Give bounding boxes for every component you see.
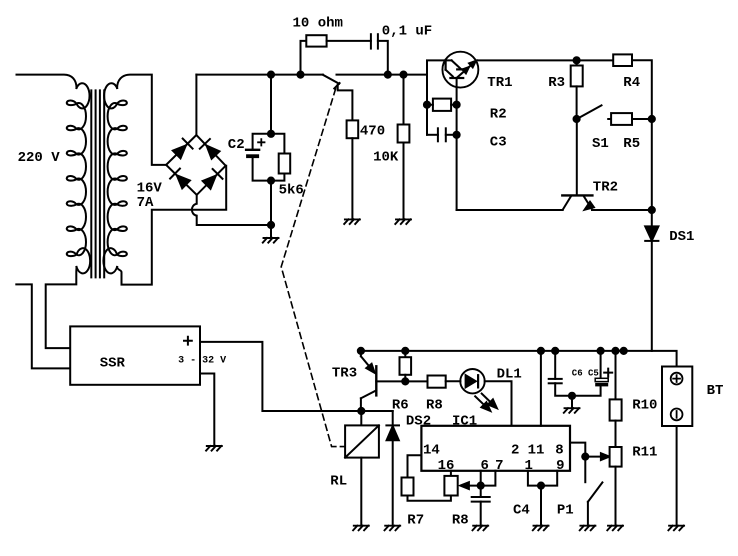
resistor R7 — [402, 478, 414, 496]
node dot C4 node — [478, 483, 484, 489]
ground (DS2) — [385, 526, 401, 531]
wire 470 to ground — [351, 138, 353, 219]
node dot 0,1uF branch — [385, 72, 391, 78]
wire R6 bottom — [404, 375, 406, 382]
resistor R6 — [400, 357, 412, 375]
node dot R3 top — [574, 57, 580, 63]
wire DC+ rail to switch — [196, 74, 323, 76]
ground (SSR-) — [206, 446, 222, 451]
bridge diode D4 (DC- to AC2) — [203, 169, 223, 189]
capacitor C2 (electrolytic) — [246, 150, 259, 158]
wire R3 top lead — [576, 60, 578, 65]
ground (470) — [344, 219, 360, 224]
wire DC+ rail right of switch — [337, 74, 428, 76]
svg-text:14: 14 — [423, 442, 440, 458]
transistor TR3 — [361, 351, 376, 411]
wire C2 node to ground node — [270, 181, 272, 225]
wire C3 left lead — [427, 134, 438, 136]
svg-text:IC1: IC1 — [452, 414, 477, 430]
wire switch pole to 470 resistor — [338, 85, 353, 121]
wire relay node to RL coil — [360, 411, 362, 425]
node dot C3 right — [454, 132, 460, 138]
svg-text:R8: R8 — [452, 513, 469, 529]
diode DS1 — [645, 226, 658, 241]
wire C5 bottom — [572, 386, 601, 395]
IC1 box — [421, 426, 570, 471]
wire BT to ground — [676, 426, 678, 526]
wire C4 to ground — [480, 502, 482, 526]
node dot R2 left — [424, 102, 430, 108]
wire R2 leads — [427, 104, 457, 106]
svg-text:C3: C3 — [490, 135, 507, 151]
wire primary bottom lead to SSR contact — [46, 267, 77, 348]
switch blade (charge changeover) — [323, 75, 340, 89]
svg-text:TR2: TR2 — [593, 180, 618, 196]
wire riser to 10 ohm resistor — [301, 41, 307, 75]
wire R5 left lead — [608, 118, 611, 120]
svg-text:11: 11 — [528, 442, 545, 458]
resistor R2 — [433, 99, 451, 111]
ground (10K) — [395, 219, 411, 224]
switch P1 blade — [588, 482, 603, 501]
dashed link switch to relay RL — [281, 89, 345, 447]
svg-text:RL: RL — [330, 474, 347, 490]
label + (SSR) — [184, 337, 192, 345]
wire R5 node to DS1 — [651, 119, 653, 226]
wire bus to C5 — [600, 351, 602, 378]
ground (C6/C5) — [564, 408, 580, 413]
resistor R4 — [613, 54, 632, 66]
svg-text:0,1 uF: 0,1 uF — [382, 23, 432, 39]
svg-text:R2: R2 — [490, 107, 507, 123]
svg-text:C4: C4 — [513, 503, 530, 519]
svg-text:R5: R5 — [623, 136, 640, 152]
wire P1 to ground — [587, 502, 589, 526]
svg-text:BT: BT — [707, 383, 724, 399]
battery BT plus terminal — [671, 373, 683, 385]
relay coil RL — [345, 425, 379, 457]
svg-text:TR1: TR1 — [487, 75, 512, 91]
svg-text:P1: P1 — [557, 503, 574, 519]
wire pins1/9 to ground — [540, 486, 542, 526]
svg-text:TR3: TR3 — [332, 366, 357, 382]
potentiometer R8 (trimmer) — [444, 476, 457, 496]
svg-text:S1: S1 — [592, 136, 609, 152]
wire R8 to DL1 — [446, 380, 461, 382]
label + (C2 polarity) — [258, 139, 264, 145]
node dot wiper node — [582, 454, 588, 460]
wire C6/C5 node to ground — [571, 396, 573, 408]
node dot R2 right — [454, 102, 460, 108]
node dot S1 node — [574, 116, 580, 122]
node dot bus R10 — [612, 348, 618, 354]
wire IC1 pin 16 to R8 pot — [450, 471, 452, 476]
svg-text:R6: R6 — [392, 398, 409, 414]
transistor TR1 internals — [446, 60, 476, 78]
svg-text:R7: R7 — [407, 513, 424, 529]
wire R11 to ground — [615, 467, 617, 526]
wire 10 ohm to capacitor 0,1uF — [327, 40, 371, 42]
label + (C5) — [604, 369, 612, 377]
ground (P1) — [580, 526, 596, 531]
node dot pins 1/9 — [538, 483, 544, 489]
wire IC1 pin 7 down — [481, 471, 496, 486]
node dot 10-ohm branch — [297, 72, 303, 78]
svg-text:10K: 10K — [373, 149, 399, 165]
ground (C4) — [473, 526, 489, 531]
node dot C2/5k6 bottom — [268, 178, 274, 184]
transistor TR1 circle — [442, 52, 478, 88]
wire IC1 pin 14 to R7 — [408, 455, 422, 477]
wire C4 node to plates — [480, 486, 482, 497]
svg-text:C6 C5: C6 C5 — [572, 369, 599, 379]
wire SSR- output to ground — [200, 374, 214, 447]
wire bus to IC1 pin 11 — [540, 351, 542, 426]
R8 pot wiper arrow — [460, 482, 480, 489]
wire 0,1uF back to rail — [378, 41, 388, 75]
bridge diode D3 (DC- to AC1) — [170, 169, 190, 189]
node dot relay node — [358, 408, 364, 414]
wire relay node — [361, 410, 392, 412]
node dot bus R6 — [402, 348, 408, 354]
resistor 10 ohm — [306, 35, 326, 46]
ground (R11) — [607, 526, 623, 531]
svg-text:DL1: DL1 — [497, 367, 522, 383]
wire RL to ground — [360, 458, 362, 526]
battery BT box — [662, 367, 692, 427]
wire C2 top lead — [253, 134, 271, 149]
wire TR1 emitter down — [456, 78, 458, 210]
svg-text:10 ohm: 10 ohm — [293, 16, 343, 32]
svg-text:R8: R8 — [426, 398, 443, 414]
svg-text:220 V: 220 V — [18, 150, 61, 166]
wire R7 to R8 pot bottom — [408, 496, 451, 501]
svg-text:R10: R10 — [632, 398, 657, 414]
svg-text:R11: R11 — [632, 445, 657, 461]
wire bridge DC- with hop over AC wire — [192, 195, 271, 225]
node dot bus C6 — [552, 348, 558, 354]
ground (BT) — [668, 526, 684, 531]
svg-text:SSR: SSR — [100, 356, 126, 372]
wire C2 bottom lead — [253, 158, 271, 181]
svg-text:DS1: DS1 — [669, 229, 694, 245]
wire bus to R10 — [615, 351, 617, 400]
wire wiper node to P1 — [584, 457, 586, 483]
LED DL1 light arrows — [475, 394, 497, 411]
transformer T1 primary winding — [67, 83, 90, 273]
node dot bus C5 — [598, 348, 604, 354]
svg-text:2: 2 — [511, 442, 519, 458]
bridge rectifier diamond frame — [166, 135, 226, 195]
bridge diode D1 (AC1 to DC+) — [173, 139, 193, 159]
wire secondary top lead to bridge AC1 — [117, 75, 166, 165]
wire R5 right lead — [632, 118, 652, 120]
node dot DS1 top — [649, 207, 655, 213]
node dot DC- ground node — [268, 222, 274, 228]
svg-text:3 - 32 V: 3 - 32 V — [178, 355, 226, 366]
wire R4 right to corner down — [632, 60, 652, 119]
node dot C6/C5 ground node — [569, 393, 575, 399]
node dot C2/5k6 top — [268, 131, 274, 137]
capacitor C4 — [472, 497, 490, 502]
wire R3 bottom to S1 node — [576, 86, 578, 119]
wire rail to 10K — [403, 75, 405, 125]
SSR box — [70, 326, 200, 384]
wire mains input bottom terminal to SSR contact — [16, 284, 70, 368]
wire DS1 to positive bus — [651, 241, 653, 351]
svg-text:8: 8 — [555, 442, 563, 458]
resistor 470 — [347, 120, 359, 138]
wire bus to C6 — [554, 351, 556, 379]
ground (pins 1/9) — [533, 526, 549, 531]
wire bus to R6 — [404, 351, 406, 357]
svg-text:6: 6 — [481, 458, 489, 474]
svg-text:R3: R3 — [548, 75, 565, 91]
wire rail corner up to TR1 base — [427, 60, 452, 134]
node dot bus spare — [621, 348, 627, 354]
wire TR1 emitter to TR2 collector — [457, 209, 563, 211]
wire S1 node down to TR2 base — [576, 119, 578, 195]
transformer T1 secondary winding — [103, 83, 126, 273]
wire 10K to ground — [403, 143, 405, 220]
wire TR3 base to R6/R8 node — [376, 380, 405, 382]
wire bridge DC+ (top corner) riser — [195, 75, 197, 135]
diode DS2 (flyback) — [386, 411, 399, 440]
resistor R3 — [571, 66, 583, 87]
node dot bus pin11 — [538, 348, 544, 354]
node dot R5 right — [649, 116, 655, 122]
wire 5k6 bottom lead — [271, 174, 284, 181]
wire 5k6 top lead — [271, 134, 284, 154]
wire DS2 to ground — [392, 440, 394, 525]
resistor 5k6 — [279, 154, 291, 174]
wire IC1 pin 8 to wiper node — [570, 443, 585, 457]
wire C6 bottom — [555, 383, 572, 396]
svg-text:5k6: 5k6 — [279, 182, 304, 198]
capacitor 0,1 uF — [371, 34, 378, 48]
capacitor C6 — [549, 379, 562, 383]
resistor 10K — [398, 125, 410, 143]
wire SSR+ output to relay node — [200, 342, 361, 411]
ground (RL) — [353, 526, 369, 531]
ground (DC-) — [263, 238, 279, 243]
R11 pot wiper arrow — [585, 453, 609, 460]
resistor R10 — [610, 399, 622, 420]
resistor R8 — [428, 376, 446, 388]
node dot R6/R8/TR3 base — [402, 378, 408, 384]
node dot 10K branch — [400, 72, 406, 78]
wire rail to C2/5k6 node — [270, 75, 272, 134]
wire R10 to R11 — [615, 421, 617, 447]
node dot bus TR3 — [358, 348, 364, 354]
wire stub to ground (DC-) — [270, 225, 272, 238]
wire C3 right lead — [446, 134, 457, 136]
wire TR1 collector rail (to R3/R4) — [476, 59, 613, 61]
node dot C2 branch — [268, 72, 274, 78]
wire IC1 pins 1 and 9 tied — [528, 471, 557, 486]
transistor TR2 — [562, 195, 594, 209]
svg-text:R4: R4 — [623, 75, 640, 91]
capacitor C5 (electrolytic) — [595, 378, 608, 386]
svg-text:470: 470 — [360, 124, 385, 140]
potentiometer R11 — [610, 447, 622, 467]
transformer T1 core — [91, 90, 104, 277]
wire DL1 to IC1 pin 2 — [485, 381, 512, 426]
wire secondary bottom lead to bridge AC2 — [117, 166, 226, 285]
resistor R5 — [611, 113, 632, 125]
LED DL1 — [460, 369, 484, 393]
switch S1 blade — [577, 105, 602, 119]
svg-text:7A: 7A — [137, 195, 154, 211]
wire node to R8 — [405, 380, 427, 382]
wire mains input top (220V line) to primary top — [17, 75, 77, 88]
capacitor C3 — [438, 128, 446, 141]
wire TR2 emitter to DS1 node — [592, 209, 652, 211]
wire positive supply bus — [361, 351, 677, 367]
bridge diode D2 (AC2 to DC+) — [200, 139, 220, 159]
battery BT minus terminal — [671, 409, 683, 421]
wire IC1 pin 6 down — [480, 471, 482, 486]
svg-text:C2: C2 — [228, 137, 245, 153]
